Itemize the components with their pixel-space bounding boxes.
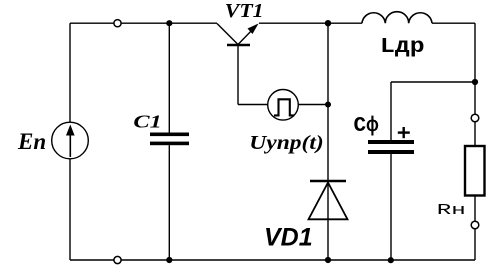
wire top horizontal terminal-to-transistor — [121, 22, 217, 24]
wire top horizontal inductor-to-right — [432, 22, 475, 24]
node junction C1 top — [166, 20, 172, 26]
wire right vertical upper — [474, 23, 476, 82]
svg-text:Uупр(t): Uупр(t) — [249, 132, 323, 154]
svg-text:Rн: Rн — [437, 202, 466, 219]
wire base horizontal to control source — [238, 104, 268, 106]
node output terminal top (open circle) — [471, 114, 479, 122]
node output terminal bottom (open circle) — [471, 221, 479, 229]
wire top-left horizontal — [70, 22, 114, 24]
node input terminal bottom (open circle) — [114, 256, 121, 263]
node junction base-drive — [325, 102, 331, 108]
wire right vertical to output terminal — [474, 82, 476, 114]
node input terminal top (open circle) — [114, 20, 121, 27]
capacitor Сф — [368, 140, 414, 154]
wire bottom horizontal — [121, 259, 475, 261]
svg-text:Сф: Сф — [354, 115, 380, 138]
label plus polarity — [398, 127, 410, 138]
wire bottom-left horizontal — [70, 259, 114, 261]
wire Сф horizontal — [391, 81, 475, 83]
resistor Rн — [465, 146, 485, 196]
wire left vertical upper — [69, 23, 71, 122]
node junction switch bottom — [325, 257, 331, 263]
wire resistor to lower terminal — [474, 196, 476, 222]
transistor VT1 — [217, 24, 259, 46]
node junction C1 bottom — [166, 257, 172, 263]
wire top horizontal emitter-to-inductor — [259, 22, 362, 24]
svg-text:VT1: VT1 — [225, 1, 264, 22]
wire control source to node — [298, 104, 328, 106]
wire Сф vertical upper — [390, 82, 392, 140]
wire switch-node vertical — [327, 23, 329, 260]
svg-text:Lдр: Lдр — [380, 35, 425, 59]
node junction Сф bottom — [388, 257, 394, 263]
wire lower terminal to bottom wire — [474, 229, 476, 260]
svg-text:C1: C1 — [133, 111, 161, 131]
source Еп (current source circle with arrow) — [52, 122, 89, 159]
svg-text:Еп: Еп — [17, 129, 46, 154]
wire Сф vertical lower — [390, 154, 392, 260]
wire terminal to resistor — [474, 122, 476, 146]
wire base vertical — [237, 45, 239, 105]
node junction switch top — [325, 20, 331, 26]
wire left vertical lower — [69, 159, 71, 260]
node junction output top — [472, 79, 478, 85]
capacitor C1 — [150, 133, 189, 146]
wire C1 branch upper — [168, 23, 170, 132]
diode VD1 — [309, 181, 348, 219]
control source Uупр (circle with pulse) — [268, 90, 299, 121]
svg-text:VD1: VD1 — [264, 224, 313, 252]
wire C1 branch lower — [168, 145, 170, 260]
inductor Lдр — [362, 12, 432, 24]
